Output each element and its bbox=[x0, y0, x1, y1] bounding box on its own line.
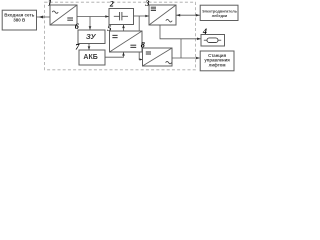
double-headed wire inverter 3 to winch motor bbox=[176, 14, 200, 17]
inverter block 3 (DC/AC) bbox=[149, 5, 176, 25]
svg-text:лифтом: лифтом bbox=[209, 62, 226, 67]
winch motor box (Электродвигатель лебедки) bbox=[200, 5, 238, 20]
svg-text:лебедки: лебедки bbox=[212, 14, 228, 18]
charger block 6 (ЗУ) bbox=[78, 30, 105, 44]
fuse block 4 bbox=[201, 35, 225, 47]
arrow DC/DC 5 up to filter 2 bbox=[122, 25, 125, 31]
svg-text:2: 2 bbox=[109, 0, 114, 8]
wire filter 2 to inverter 3 (arrow into 3) bbox=[134, 15, 149, 18]
svg-text:АКБ: АКБ bbox=[83, 54, 97, 61]
rectifier block 1 (AC/DC) bbox=[50, 5, 77, 25]
wire battery to DC/DC 5 (arrow up into 5) bbox=[105, 52, 125, 57]
input mains box (Входная сеть 380 В) bbox=[2, 10, 36, 30]
outer dashed enclosure frame bbox=[45, 2, 196, 70]
wire input network to rectifier (arrow into mains box) bbox=[37, 16, 51, 19]
DC/DC converter block 5 bbox=[110, 31, 143, 52]
tap riser joining fuse wire to station wire bbox=[180, 39, 182, 58]
svg-text:ЗУ: ЗУ bbox=[86, 32, 97, 41]
battery block 7 (АКБ) bbox=[79, 50, 105, 65]
wire rectifier 1 to filter 2 (arrow into 2) bbox=[77, 15, 109, 18]
lift control station box (Станция управления лифтом) bbox=[200, 51, 234, 71]
branch wire down to charger 6 bbox=[89, 17, 92, 30]
svg-text:Электродвигатель: Электродвигатель bbox=[202, 9, 238, 13]
inverter block 8 (DC/AC) bbox=[143, 48, 173, 66]
wire inverter 8 to control station (arrow into station) bbox=[172, 57, 200, 60]
arrow charger to battery bbox=[88, 44, 91, 50]
filter block 2 (capacitor) bbox=[109, 9, 134, 25]
svg-text:380 В: 380 В bbox=[13, 18, 26, 23]
wire inverter 3 bottom down and right to fuse 4 (arrow into 4) bbox=[160, 25, 201, 40]
branch wire from DC bus down to inverter 8 bbox=[139, 16, 142, 61]
